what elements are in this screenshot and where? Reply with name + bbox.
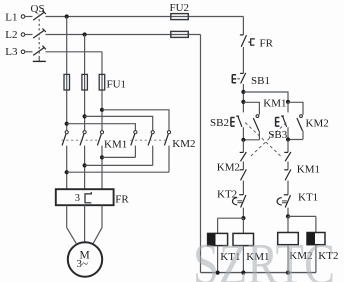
svg-text:KM2: KM2 [306,118,329,130]
pushbutton SB3 NC contact (in left branch) [240,152,247,170]
node dot left box bottom [241,138,245,142]
node dot left branch coil split [241,216,245,220]
svg-text:QS: QS [31,3,45,15]
fuse FU1 pole 2 [82,74,88,90]
svg-text:KM2: KM2 [217,162,240,174]
wire phase B vertical [84,35,86,131]
node dot rail KT1 [216,271,220,275]
relay FR NC contact (control) [240,35,255,47]
relay FR heater box [56,189,114,205]
wire L1 bus [46,16,244,18]
node dot phase A to KM2 link [65,122,69,126]
node dot KM2-1 swap to phase C [100,155,104,159]
wire swap link KM2-1 to phase C [102,156,135,158]
svg-text:SB2: SB2 [210,117,229,129]
wire motor lead 3 [93,205,102,243]
contactor KM1 main contact 1 [62,131,68,146]
wire link KM2-2 to phase B [85,164,153,166]
svg-text:SZRTC: SZRTC [193,232,335,282]
svg-text:KT1: KT1 [298,191,318,203]
wire branch to right (KM2 branch feed) [243,92,288,102]
switch QS pole 2 [25,28,46,38]
coil KM1 [233,233,254,272]
coil KT1 (time relay) [208,233,228,272]
wire right branch to NC contacts [287,140,289,153]
timer KT1 NC delayed contact [277,195,290,217]
wire phase C to KM2 contact 3 (top) [102,110,169,130]
wire to KM2 coil [287,216,289,232]
svg-text:SB3: SB3 [268,129,287,141]
node dot rail KM2 [286,271,290,275]
wire SB2 lower / left box bottom [243,127,259,140]
node dot left box top [241,100,245,104]
wire phase B to KM2 contact 2 (top) [85,116,153,130]
wire KM1 contact 1 lower [66,146,68,190]
switch QS pole 3 [25,46,46,56]
wire control right feed drop [242,17,244,35]
svg-text:3~: 3~ [77,258,89,270]
contactor KM1 main contact 2 [80,131,86,146]
contactor KM2 NC interlock contact [240,169,247,194]
wire control left rail (from FU2 lower) [200,35,202,273]
wire phase A to KM2 contact 1 (top) [67,124,136,131]
contactor KM2 mechanical link (dashed) [130,139,168,141]
mechanical interlock dashed SB3 to SB3-NC [250,123,286,157]
wire phase A vertical [66,17,68,131]
node dot phase B to KM2 link [83,114,87,118]
node dot right box top [286,100,290,104]
wire motor lead 2 [84,205,86,242]
wire to KT1 coil [218,218,244,233]
svg-text:SB1: SB1 [251,75,270,87]
fuse FU1 pole 1 [64,74,70,90]
wire KM2 contact 2 lower [152,146,154,166]
wire left branch to NC contacts [242,140,244,153]
svg-text:FU1: FU1 [107,79,127,91]
node dot KM2-2 to phase B [83,163,87,167]
wire SB3 lower / right box bottom [288,127,303,139]
wire SB1 to split node [242,84,244,112]
motor M 3~ [68,242,102,276]
relay FR heater symbol [85,192,91,203]
wire FR to SB1 [242,47,244,73]
svg-text:FU2: FU2 [170,2,190,14]
wire KM2 contact 1 lower [134,146,136,158]
svg-text:KM1: KM1 [297,164,320,176]
wire control bottom rail [201,272,317,274]
switch QS mechanical link [33,15,46,62]
contactor KM1 auxiliary NO (self-hold) [253,115,259,140]
node dot KM2-3 swap to phase A [65,170,69,174]
svg-text:KM1: KM1 [263,98,286,110]
coil KT2 (time relay) [307,233,325,273]
mechanical interlock dashed SB2 to SB2-NC [245,123,281,157]
node L1 terminal [21,15,25,19]
contactor KM2 main contact 1 [131,131,137,146]
contactor KM1 NC interlock contact [284,169,291,194]
wire to KM1 coil [242,218,244,233]
fuse FU2 lower [171,31,189,37]
pushbutton SB3 (reverse start, NO) [276,102,288,127]
node junction L2/phase-B drop [83,32,87,36]
wire swap link KM2-3 to phase A [67,171,169,173]
contactor KM2 main contact 3 [164,131,170,146]
timer KT2 NC delayed contact [233,195,246,218]
svg-text:KM2: KM2 [172,138,195,150]
svg-text:KM1: KM1 [104,139,127,151]
fuse FU1 pole 3 [99,74,105,90]
wire to KT2 coil [288,216,316,232]
node L3 terminal [21,50,25,54]
wire left parallel box top [243,102,259,114]
svg-text:L2: L2 [5,29,17,41]
wire right parallel box top [288,102,303,114]
wire L3 bus [46,51,103,53]
wire L2 bus [46,34,201,36]
pushbutton SB2 (forward start, NO) [231,116,242,127]
fuse FU2 upper [171,14,189,20]
svg-text:FR: FR [115,193,129,205]
node dot right box bottom [286,137,290,141]
node junction L1/phase-A drop [65,14,69,18]
node dot phase C to KM2 link [100,108,104,112]
svg-text:3: 3 [75,193,80,204]
node dot rail KM1 [241,271,245,275]
pushbutton SB1 (stop, NC) [232,73,245,84]
wire KM1 contact 2 lower [84,146,86,190]
node dot right branch coil split [286,214,290,218]
contactor KM1 mechanical link (dashed) [62,139,101,141]
svg-text:FR: FR [260,37,274,49]
pushbutton SB2 NC contact (in right branch) [284,152,291,170]
contactor KM1 main contact 3 [97,131,103,146]
contactor KM2 auxiliary NO (self-hold) [297,115,303,140]
wire KM1 contact 3 lower [101,146,103,190]
wire phase C vertical [101,52,103,130]
switch QS pole 1 [25,10,46,20]
coil KM2 [278,233,299,273]
node L2 terminal [21,33,25,37]
contactor KM2 main contact 2 [148,131,154,146]
wire motor lead 1 [67,205,77,243]
wire KM2 contact 3 lower [168,146,170,173]
svg-text:L1: L1 [5,12,17,24]
svg-text:KT2: KT2 [217,189,237,201]
svg-text:L3: L3 [5,46,18,58]
node dot below SB1 [241,90,245,94]
